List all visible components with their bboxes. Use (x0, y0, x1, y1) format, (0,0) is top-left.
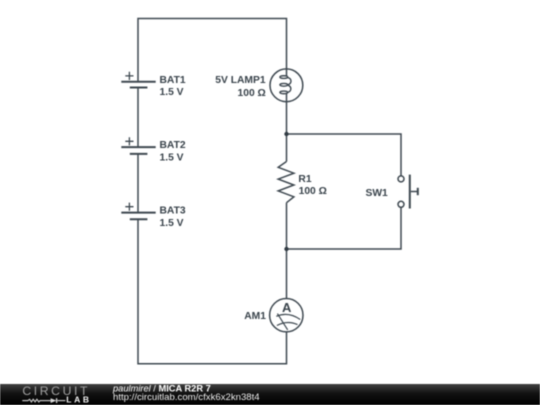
wire: top loop (left rail top + top wire + drop into lamp) (138, 19, 287, 82)
node A junction dot (284, 132, 288, 136)
wire: lamp to resistor (through node A) (286, 93, 288, 162)
svg-text:BAT3: BAT3 (160, 206, 186, 217)
svg-text:1.5 V: 1.5 V (160, 153, 184, 164)
battery BAT1 (121, 82, 155, 88)
svg-text:LAB: LAB (66, 394, 91, 404)
svg-text:1.5 V: 1.5 V (160, 87, 184, 98)
wire: left rail BAT1 to BAT2 (137, 88, 139, 148)
svg-text:A: A (282, 300, 292, 315)
svg-text:SW1: SW1 (365, 188, 388, 199)
svg-text:http://circuitlab.com/cfxk6x2k: http://circuitlab.com/cfxk6x2kn38t4 (113, 392, 260, 403)
ammeter AM1 circle (270, 299, 303, 332)
lamp LAMP1 circle (270, 69, 303, 102)
wire: resistor to ammeter (through node B) (286, 203, 288, 299)
logo diode symbol (51, 398, 57, 403)
svg-text:5V LAMP1: 5V LAMP1 (215, 75, 266, 86)
switch SW1 stem (411, 191, 418, 193)
switch SW1 plunger bar (409, 175, 411, 209)
svg-text:1.5 V: 1.5 V (160, 218, 184, 229)
resistor R1 zigzag (278, 162, 294, 203)
battery BAT3 (121, 213, 155, 220)
svg-text:BAT2: BAT2 (160, 140, 186, 151)
wire: node A to switch branch top (287, 134, 402, 176)
switch SW1 button cap (417, 188, 419, 195)
battery BAT3 plus sign (125, 203, 133, 211)
svg-text:100 Ω: 100 Ω (238, 88, 266, 99)
wire: left rail bottom + bottom wire + rise into ammeter (138, 219, 287, 363)
logo resistor zigzag (22, 399, 50, 402)
node B junction dot (284, 247, 288, 251)
ammeter AM1 needle (277, 314, 287, 330)
battery BAT1 plus sign (125, 72, 133, 80)
wire: switch branch bottom to node B (287, 207, 402, 249)
battery BAT2 plus sign (125, 137, 133, 145)
ammeter AM1 scale arcs (276, 314, 300, 319)
svg-text:R1: R1 (298, 174, 311, 185)
svg-text:BAT1: BAT1 (160, 75, 186, 86)
footer bar background (0, 384, 540, 405)
switch SW1 terminal circle bottom (398, 201, 404, 207)
svg-text:100 Ω: 100 Ω (299, 186, 327, 197)
battery BAT2 (121, 147, 155, 154)
wire: left rail BAT2 to BAT3 (137, 154, 139, 213)
svg-text:AM1: AM1 (244, 311, 266, 322)
lamp LAMP1 filament coil (280, 76, 291, 94)
switch SW1 terminal circle top (398, 176, 404, 182)
